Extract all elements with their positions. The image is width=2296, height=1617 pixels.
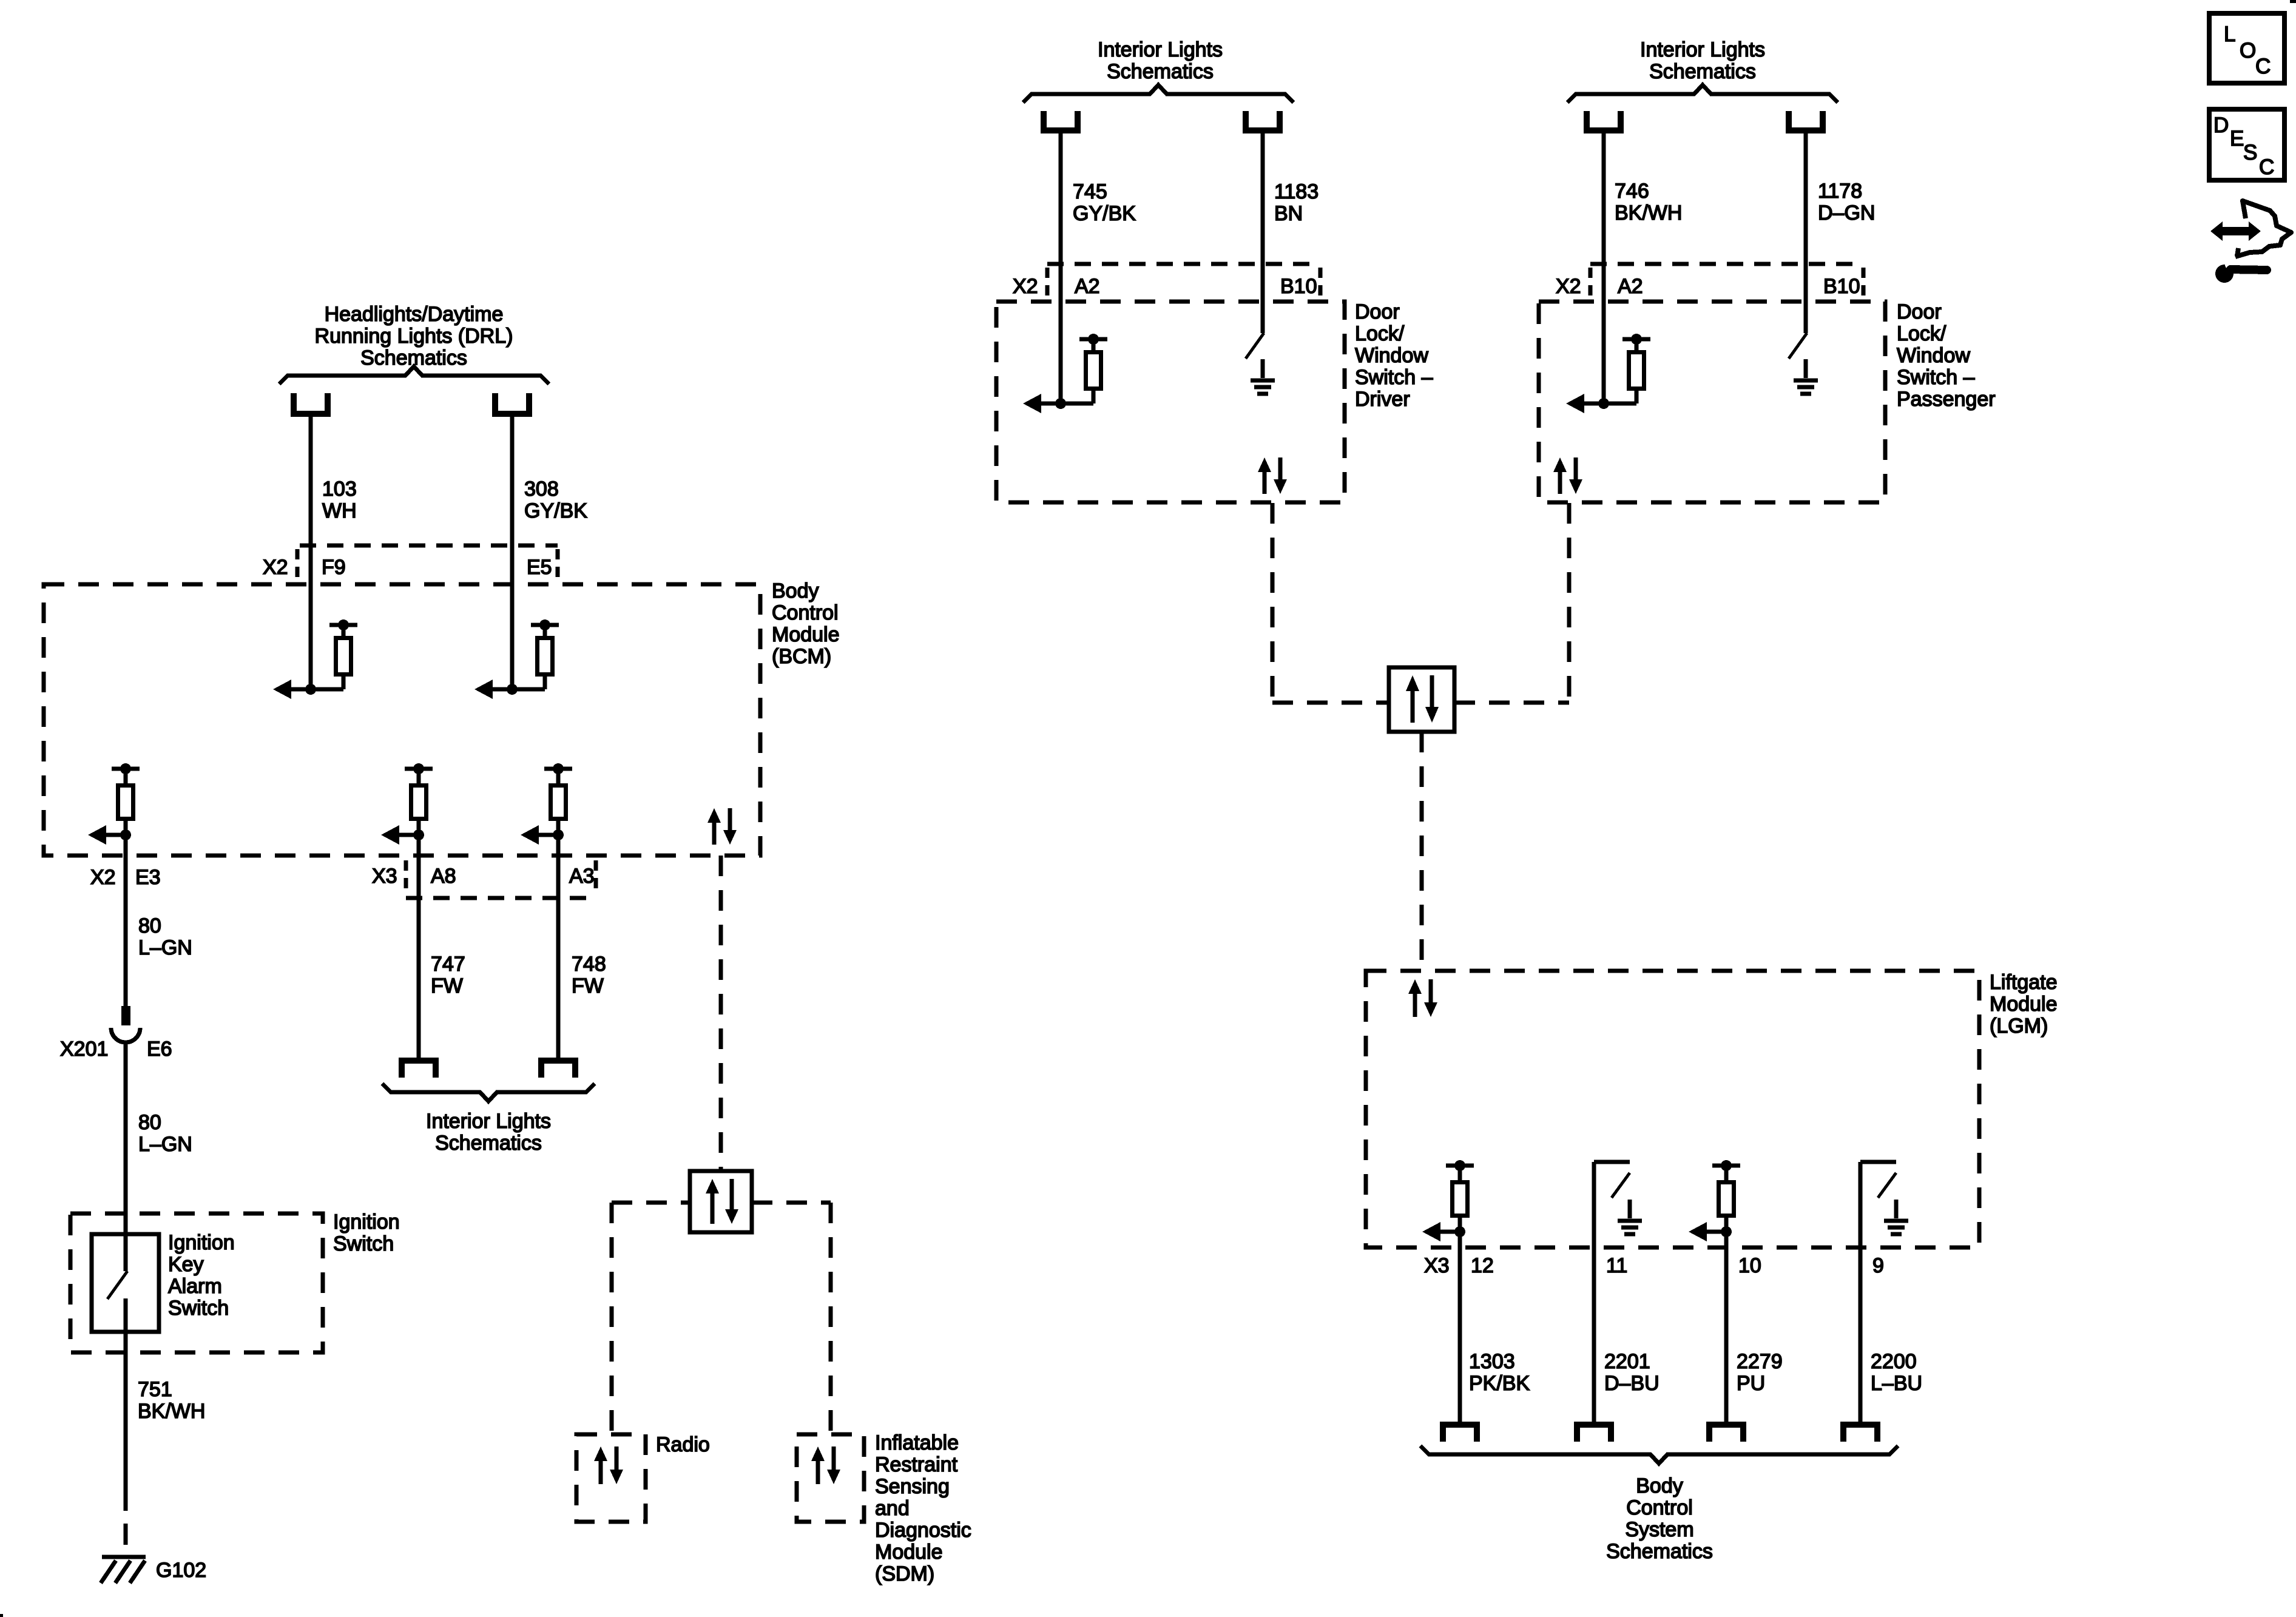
svg-text:747: 747 [431, 953, 465, 976]
wire below ignition key alarm switch [124, 1298, 128, 1490]
svg-text:A8: A8 [431, 865, 456, 888]
svg-text:2279: 2279 [1737, 1350, 1783, 1373]
serial data junction box (door switches) [1389, 667, 1454, 732]
svg-text:L–GN: L–GN [138, 1133, 192, 1156]
connector to body control system (10) [1709, 1425, 1743, 1442]
svg-text:Door: Door [1355, 300, 1400, 323]
connector to DRL schematics (left) [294, 393, 328, 414]
wire 103 WH [309, 416, 313, 689]
Ignition Key Alarm Switch box [92, 1234, 159, 1332]
SDM serial data arrows [811, 1447, 840, 1484]
svg-text:2201: 2201 [1604, 1350, 1650, 1373]
BCM output driver for A3 (resistor + arrow) [521, 763, 572, 845]
svg-text:F9: F9 [322, 556, 346, 579]
svg-text:X2: X2 [90, 866, 116, 889]
svg-text:L–GN: L–GN [138, 936, 192, 959]
passenger door lock switch blade [1789, 333, 1807, 359]
svg-text:Body: Body [772, 579, 819, 603]
dashed serial wire below passenger switch [1567, 503, 1572, 703]
svg-text:Interior Lights: Interior Lights [426, 1110, 551, 1133]
svg-text:E6: E6 [147, 1038, 172, 1061]
brace body control system schematics [1420, 1446, 1898, 1463]
Radio dashed box [576, 1434, 646, 1522]
Door Lock/Window Switch - Passenger dashed box [1539, 302, 1885, 502]
page corner mark (top right) [2290, 0, 2296, 3]
svg-text:D–GN: D–GN [1818, 201, 1875, 224]
BCM output driver for E3 (resistor + arrow) [88, 763, 140, 845]
connector X2 row (A2/B10) passenger dotted outline [1590, 264, 1863, 300]
wire 745 GY/BK [1059, 133, 1063, 403]
dashed serial wire driver to junction box [1272, 701, 1389, 705]
svg-text:GY/BK: GY/BK [1073, 202, 1136, 225]
brace interior lights schematics [382, 1084, 595, 1101]
svg-text:BK/WH: BK/WH [138, 1400, 205, 1423]
svg-text:Liftgate: Liftgate [1990, 971, 2058, 994]
Radio serial data arrows [594, 1447, 623, 1484]
dashed serial wire passenger to junction box [1454, 701, 1569, 705]
svg-text:X3: X3 [372, 865, 397, 888]
ground G102 (chassis ground) [101, 1557, 146, 1583]
svg-text:C: C [2255, 55, 2271, 78]
svg-text:X3: X3 [1424, 1254, 1450, 1277]
passenger switch illumination resistor + arrow [1566, 334, 1650, 413]
svg-text:Schematics: Schematics [1606, 1540, 1713, 1563]
dashed wire junction to radio branch [612, 1201, 690, 1205]
connector repair icon: terminal outline [2235, 201, 2291, 257]
wire 2279 PU [1724, 1232, 1729, 1427]
LGM driver for pin 10 (resistor + arrow) [1689, 1160, 1740, 1241]
BCM serial data arrows [707, 808, 737, 845]
svg-text:(SDM): (SDM) [875, 1562, 934, 1585]
connector from interior lights (745) [1044, 111, 1078, 130]
wire 1178 D-GN [1804, 133, 1808, 333]
svg-text:X201: X201 [60, 1038, 108, 1061]
svg-text:Module: Module [1990, 993, 2058, 1016]
driver switch illumination resistor + arrow [1023, 334, 1107, 413]
LGM switch for pin 11 [1594, 1162, 1630, 1427]
page corner mark (bottom left) [0, 1614, 3, 1617]
wire 1303 PK/BK [1458, 1232, 1462, 1427]
svg-text:1183: 1183 [1274, 180, 1319, 203]
BCM output driver for F9 (resistor + arrow) [273, 619, 357, 699]
wire 80 L-GN (E3 upper) [124, 835, 128, 1007]
svg-text:(LGM): (LGM) [1990, 1014, 2048, 1038]
dashed wire junction to SDM branch [752, 1201, 831, 1205]
svg-text:FW: FW [431, 974, 463, 998]
connector from interior lights (1183) [1246, 111, 1280, 130]
brace interior lights (driver) [1023, 85, 1294, 103]
dashed serial data wire from BCM [719, 856, 723, 1171]
svg-text:FW: FW [572, 974, 604, 998]
dashed wire down to Radio [610, 1203, 614, 1434]
svg-text:80: 80 [138, 914, 161, 937]
svg-text:BK/WH: BK/WH [1615, 201, 1682, 224]
ground (LGM pin 9 switch) [1884, 1200, 1908, 1234]
svg-text:Driver: Driver [1355, 388, 1410, 411]
svg-text:Schematics: Schematics [1649, 60, 1756, 83]
svg-text:X2: X2 [1556, 275, 1581, 298]
svg-text:A2: A2 [1618, 275, 1643, 298]
svg-text:10: 10 [1738, 1254, 1761, 1277]
svg-text:G102: G102 [156, 1559, 206, 1582]
Door Lock/Window Switch - Driver dashed box [996, 302, 1345, 502]
svg-text:Switch: Switch [168, 1297, 229, 1320]
svg-text:System: System [1625, 1518, 1693, 1541]
svg-text:L–BU: L–BU [1871, 1372, 1922, 1395]
Body Control Module (BCM) dashed box [44, 584, 760, 856]
connector to interior lights (right) [541, 1061, 575, 1078]
LGM switch for pin 9 [1860, 1162, 1896, 1427]
svg-text:Control: Control [772, 601, 839, 624]
ground (driver switch) [1251, 359, 1275, 394]
LOC icon letters [2224, 22, 2271, 78]
svg-text:A3: A3 [569, 865, 595, 888]
svg-text:Door: Door [1897, 300, 1942, 323]
Liftgate Module (LGM) dashed box [1366, 971, 1979, 1247]
wire 80 L-GN (E6 lower) [124, 1041, 128, 1271]
svg-text:Radio: Radio [656, 1433, 710, 1456]
connector to body control system (9) [1843, 1425, 1877, 1442]
svg-text:S: S [2243, 141, 2257, 164]
svg-text:Switch –: Switch – [1897, 366, 1975, 389]
brace DRL schematics [279, 366, 549, 384]
BCM output driver for E5 (resistor + arrow) [474, 619, 559, 699]
connector to interior lights (left) [402, 1061, 436, 1078]
svg-text:E5: E5 [527, 556, 552, 579]
svg-text:Ignition: Ignition [168, 1231, 235, 1254]
svg-text:Window: Window [1897, 344, 1970, 367]
svg-text:Switch: Switch [333, 1232, 394, 1255]
svg-text:E: E [2230, 127, 2244, 150]
serial data junction arrows [706, 1179, 738, 1224]
BCM output driver for A8 (resistor + arrow) [381, 763, 433, 845]
dashed wire down to SDM [829, 1203, 833, 1434]
wire 748 FW [556, 835, 561, 1062]
connector to body control system (12) [1443, 1425, 1477, 1442]
junction box serial arrows [1406, 675, 1439, 723]
dashed wire to G102 [124, 1490, 128, 1557]
svg-text:Alarm: Alarm [168, 1275, 222, 1298]
svg-text:308: 308 [524, 478, 559, 501]
svg-text:Key: Key [168, 1253, 204, 1276]
svg-text:Running Lights (DRL): Running Lights (DRL) [315, 325, 513, 348]
svg-text:Schematics: Schematics [1107, 60, 1214, 83]
svg-text:PU: PU [1737, 1372, 1765, 1395]
svg-text:1178: 1178 [1818, 180, 1862, 203]
dashed serial wire junction to LGM [1420, 732, 1424, 971]
svg-text:80: 80 [138, 1111, 161, 1134]
svg-text:Schematics: Schematics [435, 1132, 542, 1155]
svg-text:746: 746 [1615, 180, 1649, 203]
svg-text:Passenger: Passenger [1897, 388, 1996, 411]
svg-text:BN: BN [1274, 202, 1303, 225]
svg-text:103: 103 [322, 478, 357, 501]
connector repair icon: double arrow [2210, 221, 2261, 241]
svg-text:E3: E3 [135, 866, 161, 889]
svg-text:Body: Body [1636, 1474, 1683, 1497]
svg-text:Switch –: Switch – [1355, 366, 1433, 389]
svg-text:A2: A2 [1075, 275, 1100, 298]
svg-text:O: O [2240, 39, 2256, 62]
connector repair icon: wrench [2215, 260, 2267, 283]
svg-text:12: 12 [1471, 1254, 1494, 1277]
svg-text:C: C [2259, 155, 2274, 179]
svg-text:Headlights/Daytime: Headlights/Daytime [325, 303, 504, 326]
connector from interior lights (746) [1587, 111, 1621, 130]
svg-text:Restraint: Restraint [875, 1453, 958, 1476]
svg-text:D–BU: D–BU [1604, 1372, 1660, 1395]
svg-text:B10: B10 [1823, 275, 1860, 298]
serial data junction box [690, 1171, 752, 1232]
svg-text:Inflatable: Inflatable [875, 1431, 959, 1454]
svg-text:1303: 1303 [1469, 1350, 1515, 1373]
connector to body control system (11) [1577, 1425, 1611, 1442]
connector X2 row (A2/B10) driver dotted outline [1047, 264, 1320, 300]
driver door lock switch blade [1246, 333, 1264, 359]
svg-text:2200: 2200 [1871, 1350, 1917, 1373]
svg-text:Interior Lights: Interior Lights [1640, 38, 1765, 61]
svg-text:(BCM): (BCM) [772, 645, 831, 668]
LGM driver for pin 12 (resistor + arrow) [1422, 1160, 1474, 1241]
ignition key alarm switch blade [107, 1271, 127, 1299]
connector X2 row (F9/E5) dotted outline [297, 545, 558, 581]
ground (LGM pin 11 switch) [1618, 1200, 1642, 1234]
svg-text:D: D [2213, 113, 2229, 137]
svg-text:Lock/: Lock/ [1897, 322, 1947, 345]
svg-text:Window: Window [1355, 344, 1428, 367]
wire 308 GY/BK [510, 416, 515, 689]
passenger switch serial data arrows [1553, 457, 1582, 494]
in-line connector X201 / E6 [111, 1006, 140, 1042]
DESC icon box [2209, 109, 2284, 180]
svg-text:751: 751 [138, 1378, 172, 1401]
svg-text:B10: B10 [1280, 275, 1317, 298]
svg-text:GY/BK: GY/BK [524, 499, 587, 522]
svg-text:WH: WH [322, 499, 357, 522]
svg-text:Control: Control [1626, 1496, 1693, 1519]
SDM dashed box [797, 1434, 864, 1522]
svg-text:and: and [875, 1497, 910, 1520]
brace interior lights (passenger) [1567, 85, 1838, 103]
LOC icon box [2209, 13, 2284, 83]
ground (passenger switch) [1794, 359, 1818, 394]
driver switch serial data arrows [1258, 457, 1287, 494]
svg-text:748: 748 [572, 953, 606, 976]
connector to DRL schematics (right) [495, 393, 529, 414]
svg-text:Sensing: Sensing [875, 1475, 950, 1498]
Ignition Switch dashed box [70, 1214, 323, 1352]
dashed serial wire below driver switch [1271, 503, 1275, 703]
svg-text:Module: Module [772, 623, 840, 646]
svg-text:Lock/: Lock/ [1355, 322, 1405, 345]
svg-text:Diagnostic: Diagnostic [875, 1519, 971, 1542]
connector X3 row (A8/A3) dotted outline [406, 860, 596, 898]
svg-text:L: L [2224, 22, 2235, 46]
svg-text:PK/BK: PK/BK [1469, 1372, 1530, 1395]
svg-text:Ignition: Ignition [333, 1210, 400, 1234]
svg-text:Interior Lights: Interior Lights [1098, 38, 1223, 61]
svg-text:Module: Module [875, 1541, 943, 1564]
svg-text:X2: X2 [263, 556, 288, 579]
svg-text:745: 745 [1073, 180, 1107, 203]
svg-text:11: 11 [1606, 1254, 1627, 1277]
DESC icon letters [2213, 113, 2274, 179]
connector from interior lights (1178) [1789, 111, 1823, 130]
wire 1183 BN [1261, 133, 1265, 333]
LGM serial data arrows [1408, 979, 1437, 1017]
svg-text:X2: X2 [1013, 275, 1038, 298]
wire 747 FW [417, 835, 421, 1062]
svg-text:9: 9 [1872, 1254, 1884, 1277]
wire 746 BK/WH [1602, 133, 1606, 403]
